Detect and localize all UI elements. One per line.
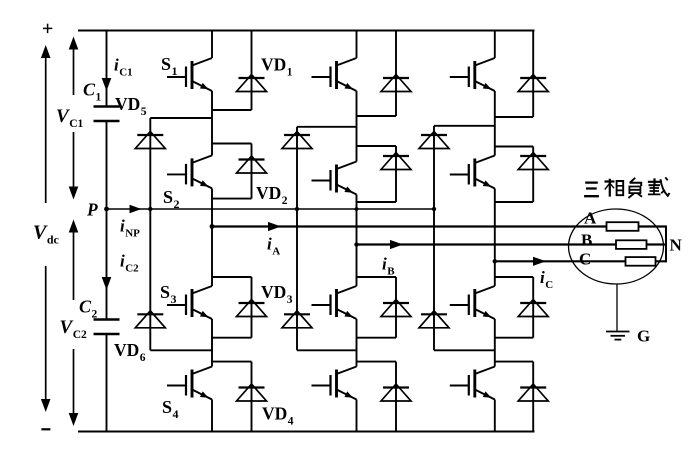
svg-text:C: C (579, 250, 591, 269)
svg-text:B: B (581, 231, 592, 250)
svg-text:P: P (86, 200, 98, 220)
svg-text:A: A (584, 209, 597, 228)
svg-text:N: N (670, 236, 683, 255)
svg-text:G: G (637, 327, 650, 346)
